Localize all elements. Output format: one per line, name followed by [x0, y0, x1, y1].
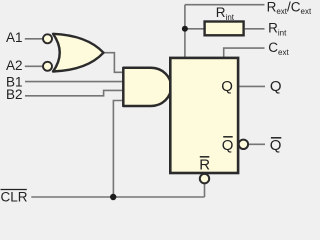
wire CLR horizontal: [31, 196, 204, 198]
wire Rext/Cext vertical: [184, 5, 186, 57]
wire Qnot output: [249, 143, 266, 145]
wire B2 input with jog: [25, 90, 123, 95]
overline of CLR: [1, 189, 27, 191]
wire CLR to AND input: [113, 101, 123, 198]
flip-flop body U3: [170, 58, 238, 173]
overline of Qnot output: [271, 137, 281, 139]
OR gate U1: [53, 34, 104, 72]
wire Cext: [224, 48, 265, 57]
wire node to Rint resistor: [185, 28, 204, 30]
junction node CLR: [110, 194, 116, 200]
overline of Rnot inside: [200, 156, 210, 158]
svg-text:Q: Q: [270, 137, 282, 154]
svg-text:B2: B2: [6, 87, 23, 102]
svg-text:A2: A2: [6, 58, 23, 73]
junction node top: [182, 26, 188, 32]
wire OR output to AND input: [103, 53, 123, 73]
svg-text:A1: A1: [6, 30, 23, 45]
wire Rint resistor to label: [245, 28, 265, 30]
wire Q output: [239, 85, 265, 87]
overline of Qnot inside: [223, 136, 233, 138]
svg-text:Q: Q: [222, 137, 234, 154]
resistor Rint: [205, 22, 244, 36]
input bubble A1: [43, 34, 52, 43]
output bubble Qnot: [239, 140, 248, 149]
svg-text:R: R: [199, 157, 210, 174]
svg-text:Q: Q: [270, 78, 282, 95]
wire Rext/Cext horizontal: [185, 4, 265, 6]
svg-text:CLR: CLR: [1, 190, 28, 203]
wire B1 input: [25, 81, 123, 83]
wire Rnot bubble to CLR line: [204, 183, 206, 197]
reset bubble Rnot: [200, 174, 209, 183]
svg-text:Q: Q: [221, 78, 233, 95]
wire A2 input: [25, 65, 43, 67]
wire A1 input: [25, 38, 43, 40]
input bubble A2: [43, 62, 52, 71]
AND gate U2: [123, 68, 171, 106]
